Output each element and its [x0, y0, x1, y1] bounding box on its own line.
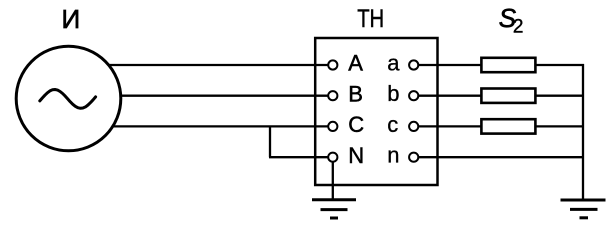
wire N horizontal segment	[269, 156, 329, 158]
ground symbol right	[561, 200, 606, 218]
burden resistor S2 phase b	[481, 89, 535, 103]
wire resistor 3 to bus	[536, 125, 583, 127]
svg-text:b: b	[387, 81, 399, 106]
wire B (source to terminal B)	[68, 95, 329, 97]
AC source И circle	[16, 46, 121, 151]
ground symbol left	[312, 200, 356, 218]
wire N terminal to ground	[332, 162, 334, 199]
wire resistor 1 to bus	[536, 64, 584, 66]
terminal c circle	[409, 122, 418, 131]
svg-text:A: A	[348, 51, 363, 76]
svg-text:ТН: ТН	[357, 5, 384, 33]
svg-text:c: c	[387, 112, 398, 137]
terminal n circle	[409, 153, 418, 162]
terminal C circle	[328, 122, 337, 131]
wire C (source to terminal C)	[68, 125, 329, 127]
svg-text:a: a	[387, 50, 400, 75]
terminal A circle	[328, 60, 337, 69]
terminal N circle	[328, 153, 337, 162]
burden resistor S2 phase c	[481, 119, 535, 133]
transformer TH box	[315, 38, 437, 185]
terminal B circle	[328, 91, 337, 100]
svg-text:n: n	[387, 143, 399, 168]
wire N branch vertical segment	[269, 126, 271, 157]
terminal b circle	[409, 91, 418, 100]
svg-text:N: N	[348, 143, 364, 168]
wire A (source to terminal A)	[68, 64, 329, 66]
svg-text:И: И	[61, 4, 80, 34]
terminal a circle	[409, 60, 418, 69]
wire a (terminal a to burden resistor 1)	[418, 64, 481, 66]
svg-text:2: 2	[513, 17, 524, 38]
wire c (terminal c to burden resistor 3)	[418, 125, 481, 127]
svg-text:C: C	[348, 112, 364, 137]
bus vertical wire to ground	[582, 64, 584, 199]
svg-text:B: B	[348, 81, 363, 106]
burden resistor S2 phase a	[481, 58, 535, 72]
wire resistor 2 to bus	[536, 95, 583, 97]
wire b (terminal b to burden resistor 2)	[418, 95, 481, 97]
wire n (terminal n to bus)	[418, 156, 583, 158]
sine symbol of source	[40, 90, 96, 109]
